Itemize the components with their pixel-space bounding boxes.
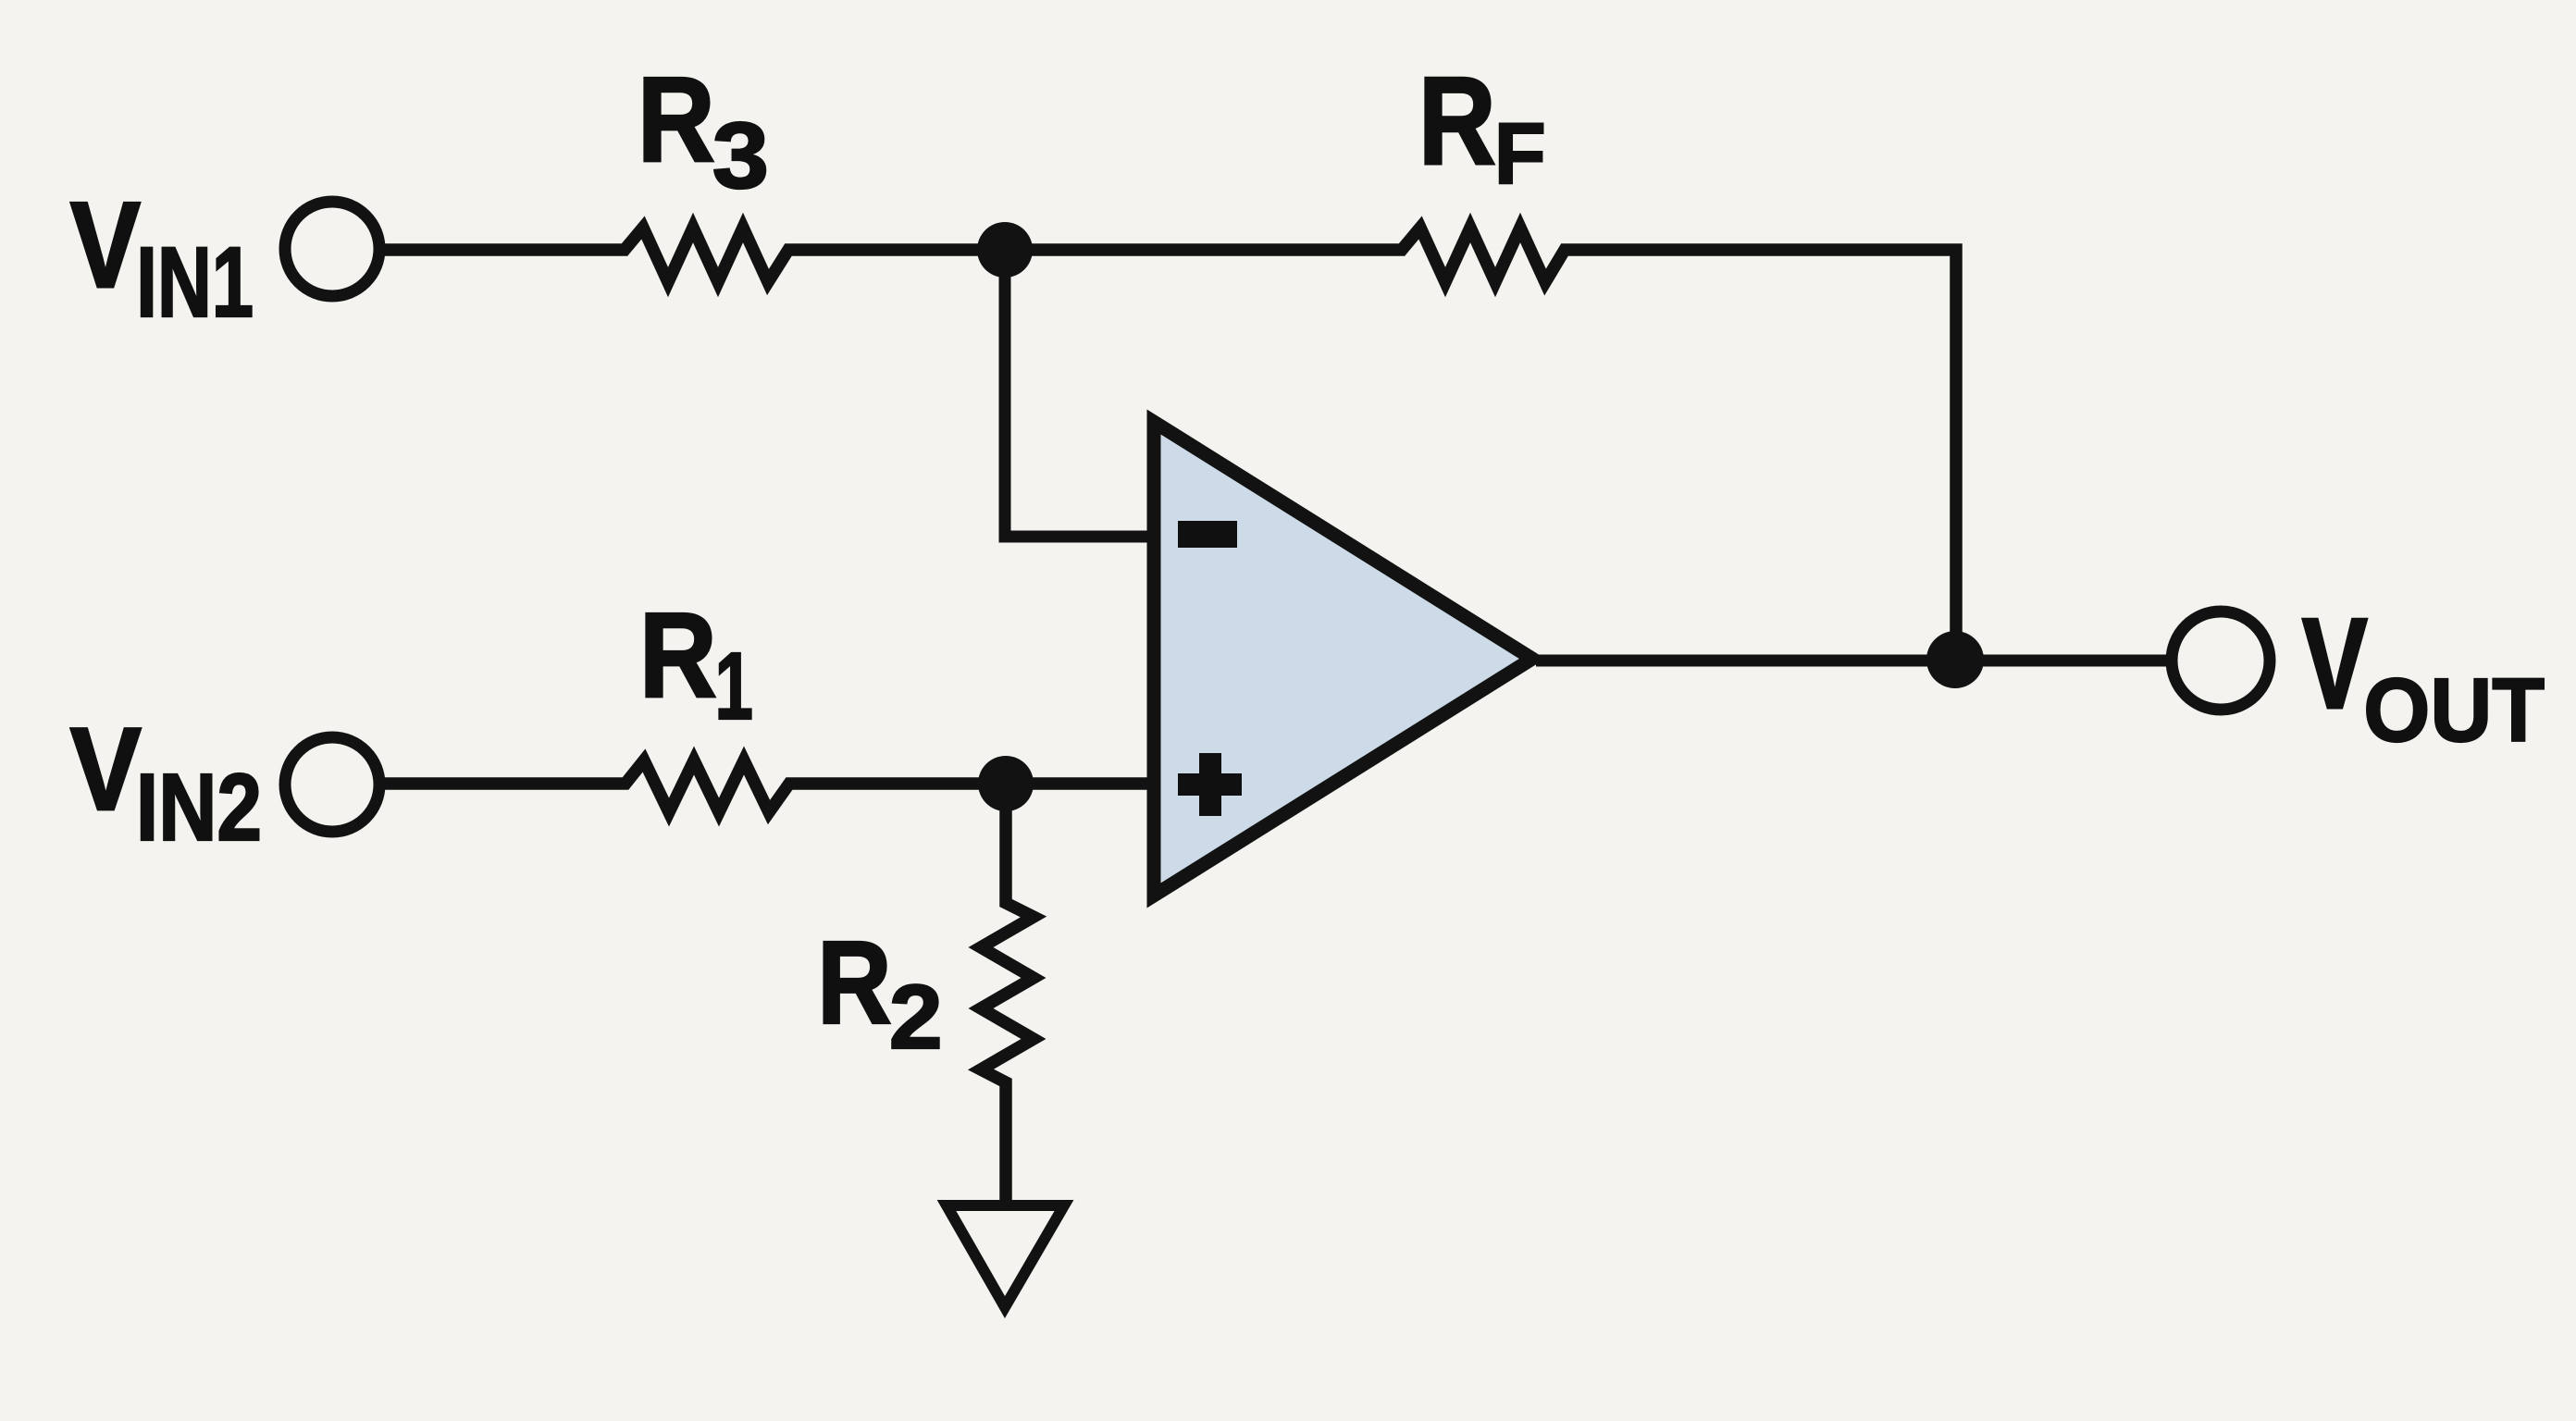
terminal VIN1 — [285, 202, 379, 296]
output node junction dot — [1926, 631, 1984, 688]
terminal VOUT — [2172, 612, 2270, 710]
ground — [947, 1205, 1064, 1307]
wire node A down to minus input — [1005, 250, 1157, 537]
node B junction dot — [978, 756, 1034, 811]
op-amp minus sign — [1178, 521, 1237, 548]
svg-text:R: R — [638, 53, 715, 188]
svg-text:2: 2 — [889, 967, 943, 1069]
svg-text:1: 1 — [715, 634, 753, 740]
svg-text:R: R — [817, 918, 891, 1049]
svg-text:IN2: IN2 — [136, 755, 262, 860]
svg-text:IN1: IN1 — [136, 228, 254, 338]
wire node B through R2 to ground — [981, 784, 1034, 1205]
svg-text:R: R — [639, 588, 717, 723]
terminal VIN2 — [285, 737, 379, 832]
svg-text:V: V — [2302, 592, 2368, 735]
svg-text:V: V — [70, 703, 142, 835]
wire output — [1536, 655, 2170, 667]
op-amp plus sign — [1178, 753, 1242, 816]
svg-text:F: F — [1494, 105, 1546, 202]
node A junction dot — [977, 222, 1033, 278]
svg-text:OUT: OUT — [2363, 661, 2545, 760]
wire VIN2 through R1 to plus input — [385, 760, 1157, 812]
svg-text:V: V — [70, 177, 141, 314]
op-amp U1 — [1154, 422, 1532, 896]
svg-text:3: 3 — [712, 104, 769, 208]
wire VIN1 through R3, node A, RF to feedback corner — [385, 228, 1956, 662]
svg-text:R: R — [1418, 51, 1496, 191]
